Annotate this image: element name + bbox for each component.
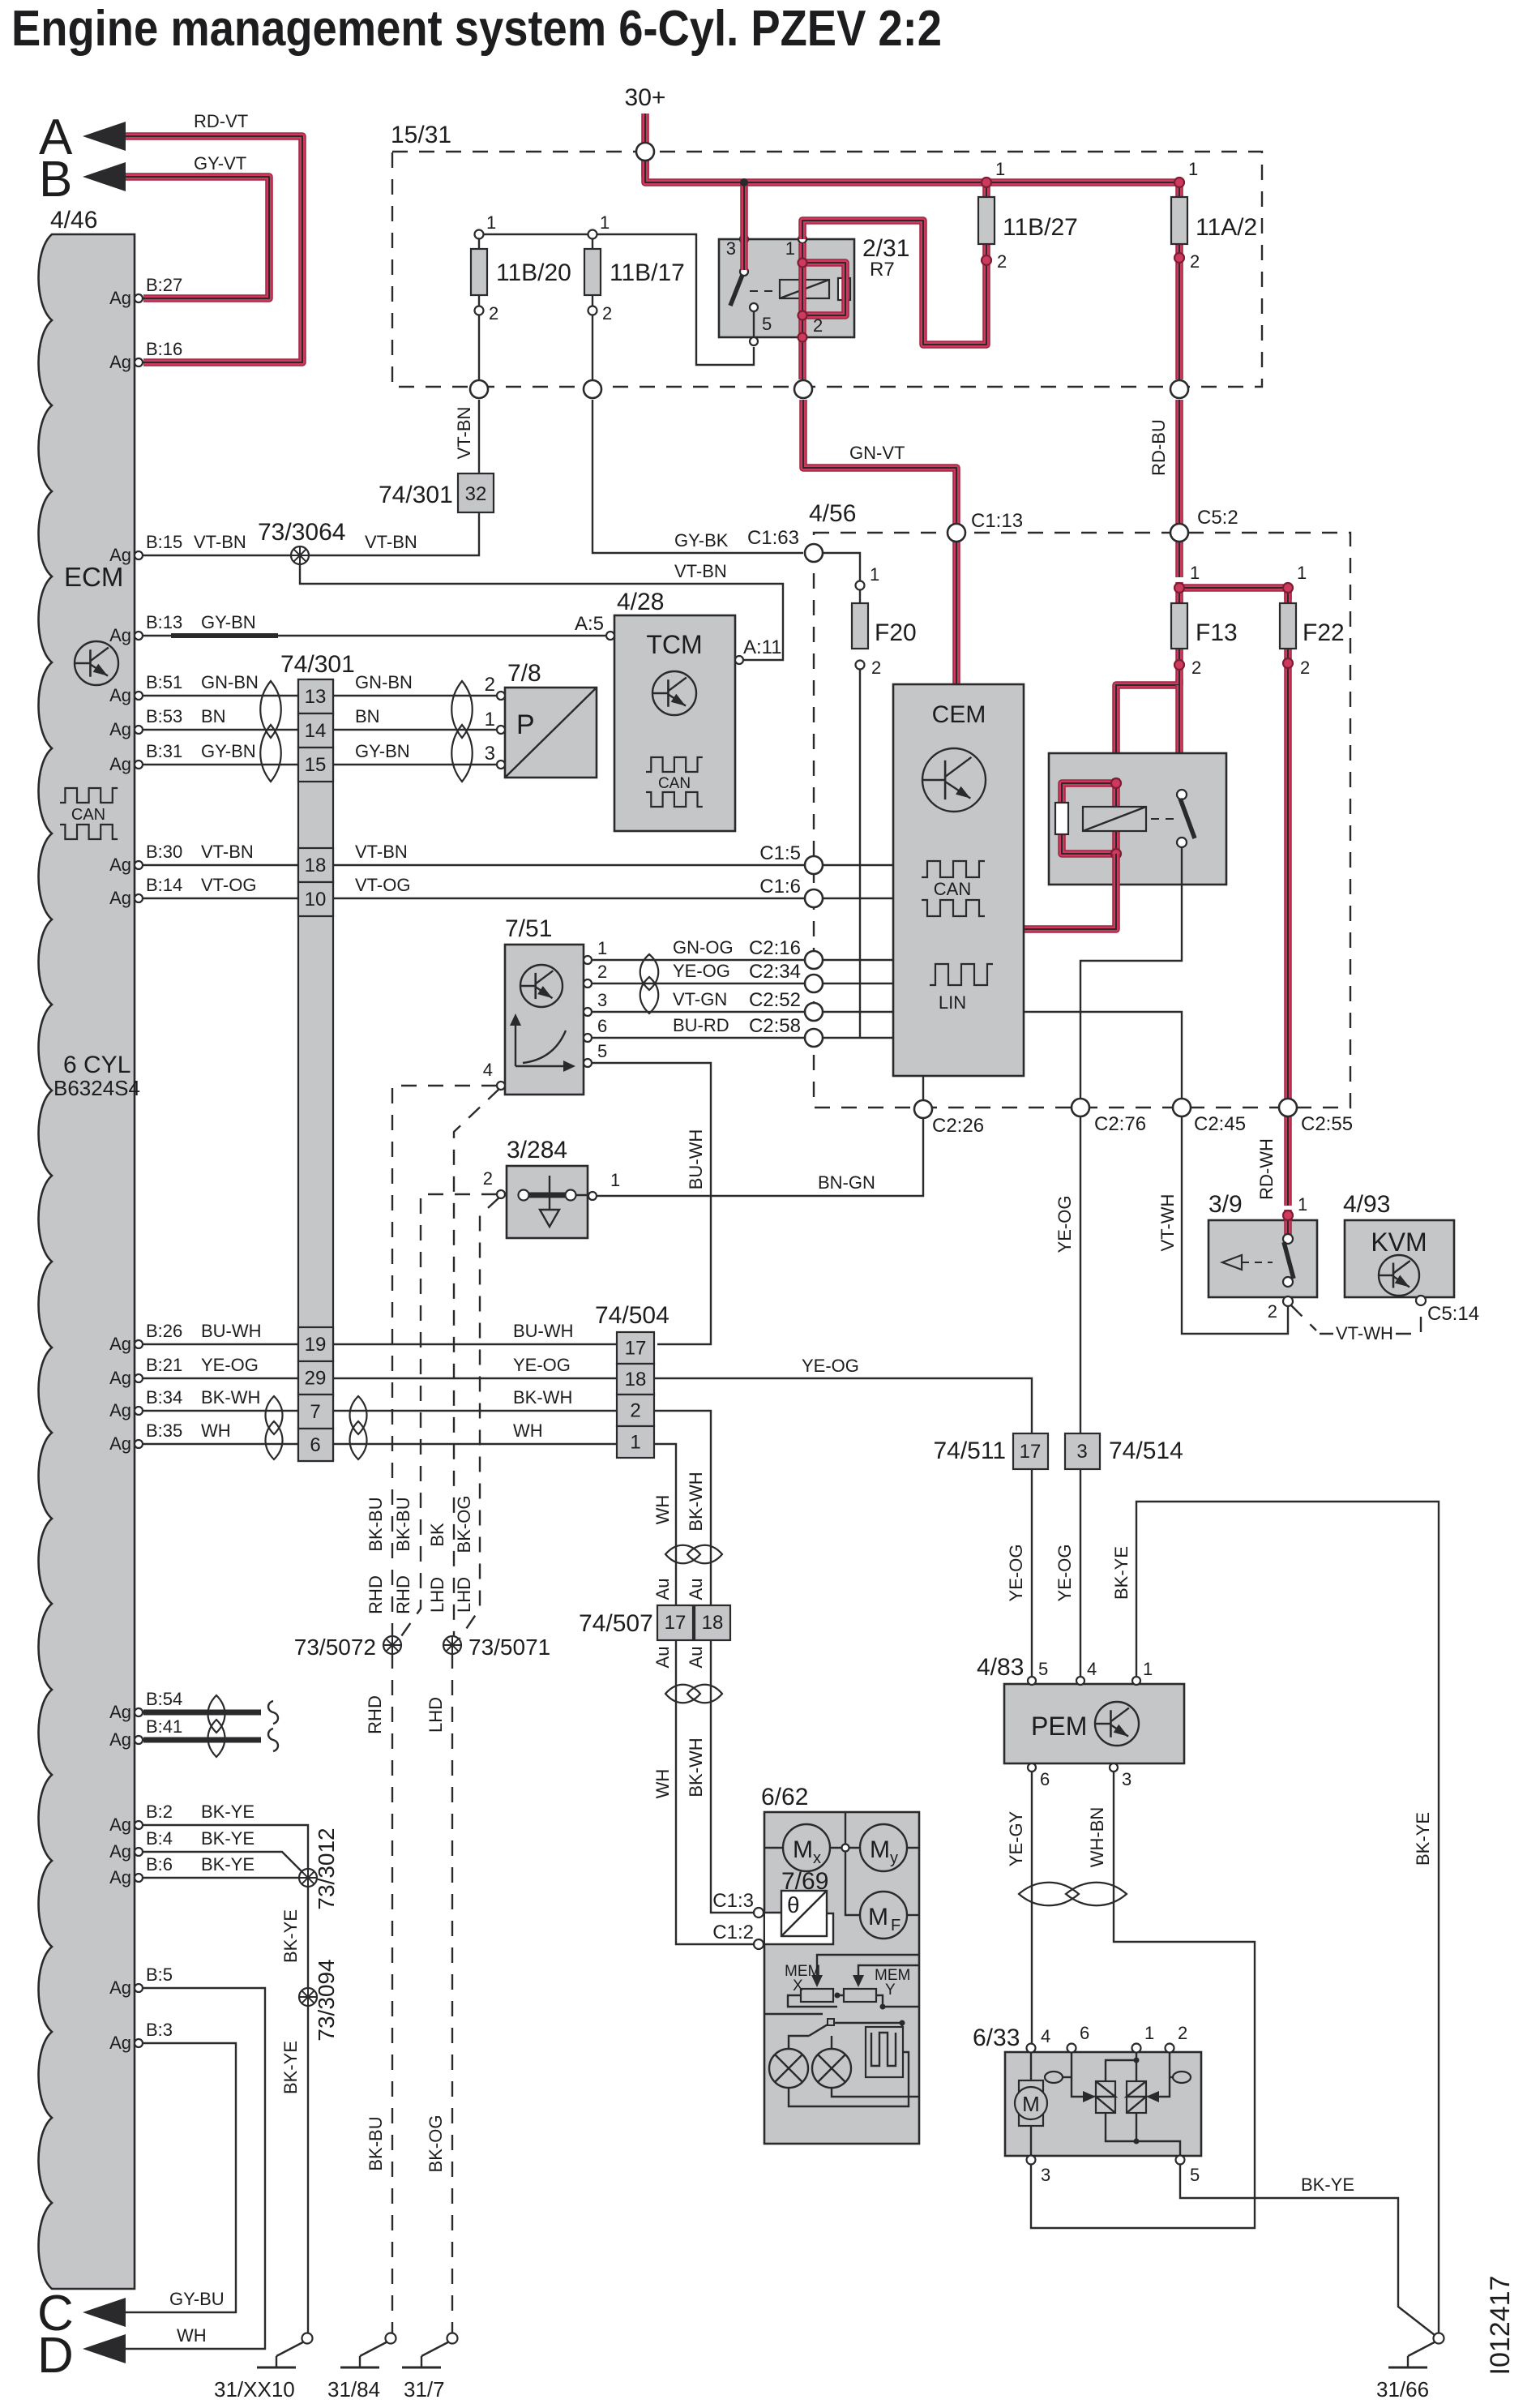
svg-text:17: 17: [1020, 1441, 1042, 1463]
PEM control-unit symbol: [1095, 1702, 1139, 1746]
svg-text:BN-GN: BN-GN: [818, 1172, 875, 1193]
svg-text:B:6: B:6: [146, 1854, 173, 1875]
svg-text:BU-RD: BU-RD: [673, 1015, 729, 1035]
node C2:45: [1173, 1099, 1191, 1116]
svg-text:4/28: 4/28: [617, 589, 664, 615]
relay 2/31 pin 5 contact: [750, 303, 758, 311]
wire B:5 WH to D: [126, 1988, 265, 2349]
relay 2/31 coil dashes: [750, 290, 776, 292]
svg-text:VT-BN: VT-BN: [674, 561, 727, 581]
svg-text:1: 1: [870, 564, 879, 585]
TCM 4/28 body: [614, 615, 735, 831]
3/284 pin 2: [497, 1190, 505, 1198]
twisted pair symbol before 7/8: [451, 681, 473, 738]
svg-text:1: 1: [1297, 563, 1307, 583]
svg-text:VT-BN: VT-BN: [454, 407, 474, 460]
svg-text:YE-OG: YE-OG: [1006, 1545, 1026, 1602]
svg-text:Ag: Ag: [109, 685, 131, 705]
svg-text:GN-BN: GN-BN: [201, 672, 259, 692]
wire C2:34 into CEM: [823, 983, 893, 984]
svg-text:WH: WH: [177, 2325, 207, 2346]
pressure sensor 7/8 body: [505, 688, 597, 778]
svg-text:M: M: [868, 1904, 888, 1930]
wire 7/51 pin3 to C2:52 VT-GN: [592, 1011, 804, 1013]
wire C2:16 into CEM: [823, 959, 893, 961]
svg-text:11B/27: 11B/27: [1003, 214, 1078, 241]
svg-text:2: 2: [1178, 2023, 1187, 2043]
svg-text:LHD: LHD: [426, 1697, 446, 1733]
svg-text:11B/17: 11B/17: [610, 259, 685, 286]
dashed wire RHD below splice: [391, 1653, 393, 2333]
fuse 11A/2: [1175, 182, 1183, 379]
74/301 pin 10 cell: [298, 882, 333, 916]
svg-text:Ag: Ag: [109, 1400, 131, 1420]
svg-text:32: 32: [465, 483, 487, 505]
antenna switch 3/9 body: [1208, 1220, 1317, 1297]
svg-text:1: 1: [1144, 2023, 1154, 2043]
node C1:6: [805, 889, 823, 907]
6/33 flag left: [1045, 2072, 1063, 2083]
svg-text:BK-WH: BK-WH: [513, 1387, 572, 1408]
svg-text:RHD: RHD: [365, 1695, 385, 1734]
svg-text:19: 19: [305, 1334, 327, 1356]
svg-text:Ag: Ag: [109, 1433, 131, 1454]
svg-text:4: 4: [1041, 2026, 1050, 2046]
svg-text:BK-YE: BK-YE: [280, 1909, 301, 1963]
twisted pair YE-GY/WH-BN: [1019, 1883, 1079, 1906]
dashed wire RHD to 3/284 pin 2: [400, 1194, 497, 1639]
dashed wire RHD to 7/51 pin 4: [392, 1086, 497, 1637]
svg-text:74/301: 74/301: [280, 651, 355, 678]
svg-text:Au: Au: [652, 1579, 673, 1600]
6/33 solenoid 1: [1096, 2081, 1115, 2113]
svg-text:Y: Y: [885, 1982, 896, 1999]
svg-text:3: 3: [1041, 2165, 1050, 2185]
svg-text:M: M: [870, 1836, 890, 1863]
3/9 arrow symbol: [1222, 1255, 1242, 1270]
red wire 30+ to relay pin 3: [740, 182, 748, 270]
svg-text:BN: BN: [201, 706, 226, 726]
svg-text:B:16: B:16: [146, 339, 182, 359]
3/9 switch: [1283, 1234, 1293, 1244]
wire C1:3 inside: [764, 1912, 781, 1913]
wire B:26 BU-WH left: [143, 1343, 298, 1345]
splice 73/5071: [443, 1636, 461, 1654]
svg-text:2: 2: [1300, 658, 1310, 678]
svg-text:YE-OG: YE-OG: [802, 1356, 859, 1376]
svg-text:1: 1: [995, 159, 1005, 179]
svg-text:Ag: Ag: [109, 625, 131, 645]
ground 31/66: [1434, 2333, 1444, 2344]
7/51 pin 6: [584, 1034, 592, 1042]
svg-text:B:53: B:53: [146, 706, 182, 726]
svg-text:M: M: [793, 1836, 813, 1863]
wire splice to TCM A:11 (VT-BN): [300, 563, 783, 660]
wire B:3 GY-BU to C: [126, 2043, 236, 2312]
svg-text:3: 3: [597, 990, 607, 1010]
PEM pin 5: [1028, 1677, 1036, 1685]
74/301 pin 14 cell: [298, 713, 333, 748]
svg-text:C2:55: C2:55: [1301, 1113, 1353, 1135]
wire GN-BN right: [333, 695, 497, 696]
svg-text:PEM: PEM: [1031, 1712, 1087, 1741]
svg-text:CAN: CAN: [658, 775, 691, 792]
svg-text:C5:14: C5:14: [1427, 1303, 1479, 1325]
6/33 pin2 arm: [1157, 2052, 1170, 2097]
6/62 lamp wires: [789, 2052, 919, 2106]
fuse 11B/27: [982, 182, 990, 260]
svg-text:Engine management system 6-Cyl: Engine management system 6-Cyl. PZEV 2:2: [11, 1, 942, 57]
connector 74/514: [1065, 1433, 1100, 1469]
PEM pin 1: [1132, 1677, 1140, 1685]
wire 7/51 pin2 to C2:34 YE-OG: [592, 983, 804, 984]
svg-text:73/5072: 73/5072: [294, 1635, 376, 1660]
svg-text:BK-YE: BK-YE: [1413, 1812, 1433, 1866]
3/9 pin 1 (red): [1284, 1210, 1292, 1236]
6/33 pin6 arm: [1072, 2052, 1084, 2097]
twisted pair WH/BK-WH lower: [665, 1685, 700, 1703]
ECM pin B:30: [135, 861, 143, 869]
svg-text:2: 2: [630, 1400, 640, 1422]
relay coil box: [1083, 807, 1146, 831]
svg-text:BK-BU: BK-BU: [366, 2116, 386, 2170]
svg-text:BK-YE: BK-YE: [1301, 2174, 1354, 2195]
svg-text:Ag: Ag: [109, 288, 131, 308]
relay switch contact bottom: [1177, 838, 1187, 847]
svg-text:73/5071: 73/5071: [468, 1635, 550, 1660]
6/62 pin C1:3: [754, 1908, 764, 1917]
svg-text:2: 2: [997, 251, 1007, 272]
6/62 junction: [842, 1845, 849, 1852]
node 15/31 exit GN-VT: [794, 380, 812, 398]
svg-text:B:27: B:27: [146, 275, 182, 295]
3/284 pin 1: [588, 1192, 597, 1200]
svg-text:A:5: A:5: [575, 613, 604, 635]
svg-text:GY-BU: GY-BU: [169, 2289, 225, 2309]
svg-text:y: y: [890, 1849, 898, 1867]
splice 73/3064: [291, 546, 309, 564]
svg-text:GY-BN: GY-BN: [201, 612, 256, 632]
svg-text:2: 2: [597, 962, 607, 982]
svg-text:B:30: B:30: [146, 842, 182, 862]
wire 74/511 to PEM pin5 YE-OG: [1031, 1469, 1033, 1677]
74/301 pin 15 cell: [298, 748, 333, 782]
svg-text:14: 14: [305, 720, 327, 742]
svg-text:18: 18: [702, 1612, 724, 1634]
node C2:58: [805, 1029, 823, 1047]
fuse 11B/20: [475, 230, 484, 239]
6/62 motor Mx: [783, 1824, 830, 1871]
svg-text:Ag: Ag: [109, 855, 131, 875]
6/62 MEM Y arm: [858, 1965, 919, 1976]
fuse F13: [1175, 582, 1183, 685]
ECM control module 4/46 body: [39, 234, 135, 2289]
wire B:54 shielded: [143, 1710, 261, 1716]
svg-text:Ag: Ag: [109, 352, 131, 372]
svg-text:2: 2: [485, 674, 495, 696]
wire B:34 BK-WH left: [143, 1410, 298, 1412]
3/9 pin 2: [1283, 1296, 1293, 1306]
wire YE-OG to 74/504: [333, 1378, 617, 1379]
node C1:63: [805, 544, 823, 562]
svg-text:GY-BK: GY-BK: [674, 530, 729, 551]
ground 31/7: [447, 2333, 458, 2344]
wire GY-BN right: [333, 764, 497, 765]
splice 73/3012: [299, 1869, 317, 1887]
svg-text:74/504: 74/504: [595, 1302, 669, 1329]
svg-text:6: 6: [1080, 2023, 1089, 2043]
wire VT-OG to C1:6: [333, 898, 804, 899]
wire 74/504 pin2 BK-WH down: [654, 1411, 754, 1913]
svg-text:Ag: Ag: [109, 888, 131, 908]
svg-text:WH: WH: [513, 1420, 543, 1441]
svg-text:BU-WH: BU-WH: [201, 1321, 262, 1341]
svg-text:C1:6: C1:6: [759, 876, 801, 898]
wire B:31 GY-BN left: [143, 764, 298, 765]
ECM pin B:21: [135, 1374, 143, 1382]
node 15/31 exit GY-BK: [584, 380, 601, 398]
7/8 pin 3: [497, 761, 505, 769]
twisted pair WH/BK-WH upper: [665, 1545, 700, 1564]
svg-text:15: 15: [305, 754, 327, 776]
switch 3/284 body: [507, 1166, 588, 1238]
6/33 pin 3: [1027, 2156, 1036, 2165]
red wire relay pin1 feed: [802, 221, 986, 345]
74/504 pin 17 cell: [617, 1332, 654, 1364]
wire 74/504 pin1 WH down: [654, 1444, 754, 1944]
red circles relay coil: [798, 259, 807, 268]
6/62 lamp 2: [812, 2049, 851, 2088]
svg-text:YE-OG: YE-OG: [201, 1355, 259, 1375]
svg-text:5: 5: [597, 1041, 607, 1061]
3/284 contact symbol: [519, 1190, 529, 1201]
svg-text:2: 2: [602, 303, 612, 323]
wire B:21 YE-OG left: [143, 1378, 298, 1379]
node C2:26: [914, 1100, 932, 1118]
wire BK-WH to 74/504: [333, 1410, 617, 1412]
relay coil resistor: [1055, 803, 1068, 834]
svg-text:CAN: CAN: [71, 806, 105, 824]
svg-text:GY-BN: GY-BN: [355, 741, 410, 761]
svg-text:73/3064: 73/3064: [258, 519, 345, 546]
svg-text:2: 2: [1268, 1301, 1277, 1322]
red wire relay pin2 down: [798, 316, 806, 379]
wire relay switch to C2:76: [1080, 847, 1182, 1098]
6/62 motor rail: [764, 1847, 919, 1849]
6/33 pin1 arm: [1106, 2052, 1136, 2081]
ECM pin B:41: [135, 1736, 143, 1744]
svg-text:Ag: Ag: [109, 1702, 131, 1722]
svg-text:Au: Au: [686, 1579, 706, 1600]
svg-text:RD-WH: RD-WH: [1256, 1138, 1277, 1200]
ECM pin B:16: [135, 358, 143, 366]
svg-text:5: 5: [1038, 1659, 1048, 1679]
wire 30+ rail: [645, 143, 1179, 182]
wire VT-WH C2:45 to 3/9 pin2: [1182, 1117, 1288, 1334]
TCM CAN symbol: [646, 757, 703, 772]
svg-text:5: 5: [762, 314, 772, 334]
svg-text:B:51: B:51: [146, 672, 182, 692]
svg-text:C1:13: C1:13: [971, 510, 1023, 532]
svg-text:YE-OG: YE-OG: [1054, 1196, 1075, 1253]
relay 2/31 coil: [780, 280, 829, 298]
svg-text:BU-WH: BU-WH: [686, 1129, 706, 1190]
svg-text:3/9: 3/9: [1208, 1191, 1243, 1218]
svg-text:1: 1: [1298, 1194, 1307, 1215]
red wire relay coil loop: [802, 243, 845, 315]
svg-text:YE-OG: YE-OG: [513, 1355, 571, 1375]
svg-text:CAN: CAN: [934, 879, 971, 899]
ECM pin B:6: [135, 1874, 143, 1882]
svg-text:31/XX10: 31/XX10: [214, 2377, 295, 2402]
svg-text:WH-BN: WH-BN: [1087, 1807, 1107, 1868]
relay 2/31 resistor: [838, 278, 850, 300]
7/51 pin 2: [584, 979, 592, 988]
svg-text:74/511: 74/511: [933, 1438, 1006, 1464]
dashed wire VT-WH to C5:14: [1291, 1305, 1316, 1330]
6/62 lamp 1: [769, 2049, 808, 2088]
svg-text:6/62: 6/62: [761, 1784, 808, 1810]
svg-text:C2:52: C2:52: [749, 989, 801, 1011]
svg-text:15/31: 15/31: [391, 122, 451, 148]
PEM 4/83 body: [1004, 1684, 1184, 1763]
svg-text:1: 1: [785, 238, 795, 259]
6/62 pin C1:2: [754, 1939, 764, 1949]
74/301 pin 19 cell: [298, 1327, 333, 1361]
74/301 pin 7 cell: [298, 1395, 333, 1429]
7/51 characteristic curve: [515, 1020, 569, 1066]
svg-text:3: 3: [485, 743, 495, 765]
dashed wire LHD to 7/51 pin 4: [454, 1089, 499, 1637]
svg-text:C2:16: C2:16: [749, 937, 801, 959]
6/62 heater element: [866, 2027, 903, 2077]
74/504 pin 18 cell: [617, 1364, 654, 1395]
svg-text:4/46: 4/46: [50, 207, 97, 234]
7/51 pin 4: [497, 1082, 505, 1090]
svg-text:2: 2: [483, 1168, 493, 1189]
svg-text:GY-VT: GY-VT: [194, 153, 246, 174]
node C5:2: [1170, 524, 1188, 542]
svg-text:KVM: KVM: [1371, 1228, 1427, 1257]
node 15/31 exit VT-BN: [470, 380, 488, 398]
svg-text:CEM: CEM: [932, 701, 986, 728]
svg-text:BK-YE: BK-YE: [201, 1828, 255, 1849]
relay body (CEM controlled): [1049, 753, 1226, 885]
twisted pair B:34/B:35 mid: [350, 1396, 367, 1434]
svg-text:LHD: LHD: [427, 1577, 447, 1613]
svg-text:Ag: Ag: [109, 545, 131, 565]
wire WH to 74/504: [333, 1443, 617, 1445]
svg-text:C2:34: C2:34: [749, 961, 801, 983]
svg-text:B:2: B:2: [146, 1802, 173, 1822]
6/33 solenoid bottoms: [1106, 2113, 1180, 2156]
svg-text:2: 2: [1190, 251, 1200, 272]
ECM pin B:5: [135, 1984, 143, 1992]
wire C1:5 into CEM: [823, 864, 893, 866]
svg-text:10: 10: [305, 889, 327, 910]
svg-text:11B/20: 11B/20: [496, 259, 571, 286]
valve unit 6/33 body: [1005, 2052, 1201, 2156]
74/301 pin 6 cell: [298, 1429, 333, 1461]
svg-text:Ag: Ag: [109, 1867, 131, 1887]
wire B:41 shielded: [143, 1737, 261, 1743]
svg-text:BN: BN: [355, 706, 380, 726]
svg-text:17: 17: [625, 1338, 647, 1360]
sensor 7/51 body: [505, 945, 584, 1095]
wire B:35 WH left: [143, 1443, 298, 1445]
wire CEM to C2:26: [922, 1076, 924, 1099]
red wire F13 branch to F22: [1179, 588, 1288, 600]
svg-text:BK-BU: BK-BU: [393, 1497, 413, 1551]
wire BN right: [333, 729, 497, 731]
svg-text:WH: WH: [201, 1420, 231, 1441]
svg-text:x: x: [813, 1849, 821, 1867]
svg-text:BK-OG: BK-OG: [454, 1496, 474, 1553]
svg-text:74/514: 74/514: [1109, 1438, 1183, 1464]
svg-text:18: 18: [625, 1369, 647, 1390]
6/33 pin 6: [1067, 2044, 1076, 2053]
svg-text:B:26: B:26: [146, 1321, 182, 1341]
ECM pin B:14: [135, 894, 143, 902]
svg-text:3/284: 3/284: [507, 1137, 567, 1163]
svg-text:WH: WH: [652, 1495, 673, 1525]
TCM pin A:5: [606, 632, 614, 640]
svg-text:6: 6: [1040, 1769, 1050, 1789]
7/51 control-unit symbol: [520, 965, 563, 1007]
svg-text:B:41: B:41: [146, 1716, 182, 1737]
7/51 pin 1: [584, 956, 592, 964]
svg-text:BK-YE: BK-YE: [280, 2041, 301, 2094]
node C2:16: [805, 951, 823, 969]
svg-text:7/8: 7/8: [507, 660, 541, 687]
svg-text:VT-OG: VT-OG: [201, 875, 256, 895]
CEM CAN symbol: [922, 861, 985, 877]
wire pin32 to splice 73/3064: [307, 512, 479, 555]
svg-text:GN-BN: GN-BN: [355, 672, 413, 692]
node 15/31 exit RD-BU: [1170, 380, 1188, 398]
6/62 motor MF: [860, 1892, 907, 1939]
svg-text:18: 18: [305, 855, 327, 876]
relay 2/31 switch: [740, 268, 748, 276]
wire 74/504 pin18 YE-OG to 74/511: [654, 1378, 1032, 1433]
svg-text:F20: F20: [875, 619, 917, 646]
svg-text:Ag: Ag: [109, 1977, 131, 1998]
PEM pin 3: [1110, 1763, 1118, 1772]
svg-text:C2:58: C2:58: [749, 1015, 801, 1037]
svg-text:73/3094: 73/3094: [314, 1959, 339, 2041]
connector 74/301 strip: [298, 679, 333, 1461]
6/33 pin 2: [1166, 2044, 1174, 2053]
ECM pin B:3: [135, 2039, 143, 2047]
twisted pair symbol 7/51: [640, 954, 659, 990]
ECM pin B:13: [135, 632, 143, 640]
7/8 pin 1: [497, 726, 505, 734]
fuse 11B/17: [588, 230, 597, 239]
fuse F22: [1284, 588, 1292, 1098]
svg-text:31/84: 31/84: [327, 2377, 380, 2402]
svg-text:5: 5: [1190, 2165, 1200, 2185]
svg-text:7: 7: [310, 1401, 320, 1423]
svg-text:Ag: Ag: [109, 1368, 131, 1388]
svg-text:C2:45: C2:45: [1194, 1113, 1246, 1135]
wire ECM B:15 to splice: [143, 555, 293, 556]
wire 7/51 pin6 to C2:58 BU-RD: [592, 1037, 804, 1039]
wire splice to splice BK-YE: [307, 1886, 309, 1990]
wire C2:52 into CEM: [823, 1011, 893, 1013]
ground 31/84: [386, 2333, 396, 2344]
wire VT-BN to C1:5: [333, 864, 804, 866]
svg-text:Au: Au: [686, 1647, 706, 1669]
